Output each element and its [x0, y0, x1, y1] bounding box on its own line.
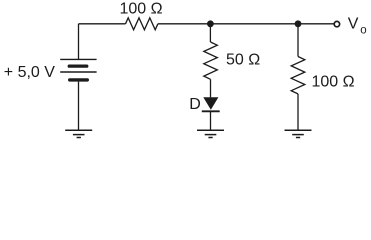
wire top from battery to R1: [79, 23, 126, 25]
node junction B (top of right 100 ohm branch): [295, 20, 302, 27]
output terminal circle Vo: [334, 21, 339, 26]
svg-text:100 Ω: 100 Ω: [312, 74, 355, 91]
svg-text:50 Ω: 50 Ω: [226, 51, 260, 68]
diode D cathode bar: [202, 110, 220, 112]
svg-text:D: D: [189, 96, 201, 113]
wire battery negative lead: [78, 82, 80, 131]
battery V1 plate long top: [60, 58, 96, 60]
diode D anode triangle: [203, 97, 218, 110]
wire diode to ground: [210, 111, 212, 130]
wire battery positive lead: [78, 24, 80, 60]
resistor R 100 ohm (top horizontal): [126, 18, 158, 30]
svg-text:+ 5,0 V: + 5,0 V: [4, 64, 55, 81]
svg-text:V: V: [348, 15, 359, 32]
node junction A (top of 50 ohm branch): [207, 20, 214, 27]
wire node B down to 100 ohm: [297, 24, 299, 57]
battery V1 plate short thick 1: [68, 65, 89, 68]
resistor R 50 ohm (vertical): [204, 42, 218, 79]
ground (diode branch): [197, 130, 224, 137]
resistor R 100 ohm (right vertical): [291, 57, 305, 94]
svg-text:100 Ω: 100 Ω: [120, 0, 163, 17]
wire top from R1 to output terminal: [158, 23, 334, 25]
wire node A down to 50 ohm: [209, 24, 211, 42]
ground (right branch): [285, 130, 312, 137]
wire 50 ohm to diode: [210, 79, 212, 97]
wire 100 ohm to ground: [297, 94, 299, 130]
ground (battery): [65, 130, 92, 137]
svg-text:o: o: [360, 24, 366, 36]
battery V1 plate short thick 2: [68, 78, 89, 81]
battery V1 plate long 2: [60, 71, 96, 73]
